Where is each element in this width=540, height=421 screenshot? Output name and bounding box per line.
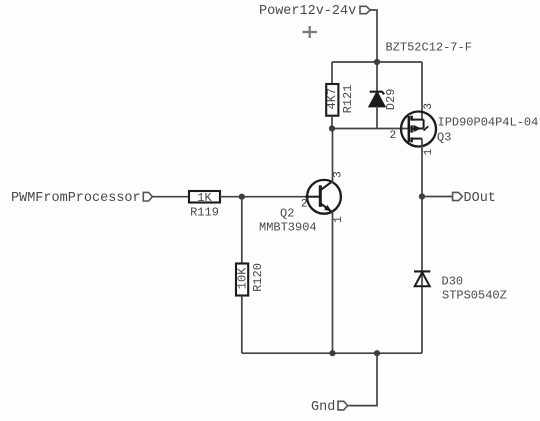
node gnd-rail junction	[374, 350, 380, 356]
diode D29 zener	[370, 92, 385, 107]
wire R120 bottom	[241, 296, 243, 354]
wire Q2 collector	[332, 129, 334, 184]
transistor Q3	[401, 112, 436, 147]
svg-text:R121: R121	[341, 85, 355, 114]
svg-text:10K: 10K	[236, 267, 250, 289]
svg-text:BZT52C12-7-F: BZT52C12-7-F	[386, 41, 472, 55]
svg-text:Power12v-24v: Power12v-24v	[259, 4, 356, 19]
wire Q3 source	[421, 62, 423, 120]
flag DOut	[453, 192, 463, 200]
node top rail junction	[374, 59, 380, 65]
flag PWMFromProcessor	[143, 192, 152, 201]
svg-text:4K7: 4K7	[325, 88, 339, 110]
wire gnd	[348, 353, 377, 405]
svg-text:D30: D30	[442, 274, 464, 288]
node emitter-rail junction	[329, 350, 335, 356]
svg-text:D29: D29	[384, 89, 398, 111]
wire bottom rail	[242, 352, 422, 354]
resistor R119	[189, 191, 220, 203]
wire Q3 drain down	[421, 139, 423, 354]
resistor R120	[236, 264, 248, 296]
svg-text:DOut: DOut	[464, 191, 496, 206]
flag Gnd	[338, 401, 348, 410]
flag Power12v-24v	[360, 6, 370, 13]
node base junction	[239, 194, 245, 200]
node DOut junction	[419, 193, 425, 199]
transistor Q2	[305, 180, 341, 214]
svg-text:Gnd: Gnd	[311, 400, 335, 415]
wire gate	[332, 128, 409, 130]
svg-text:IPD90P04P4L-04: IPD90P04P4L-04	[438, 115, 539, 129]
wire R121 top	[331, 62, 333, 85]
svg-text:1: 1	[423, 148, 435, 155]
svg-text:1: 1	[333, 216, 345, 223]
svg-text:PWMFromProcessor: PWMFromProcessor	[11, 191, 141, 206]
svg-text:Q3: Q3	[437, 131, 451, 145]
svg-text:R120: R120	[251, 263, 265, 292]
svg-text:2: 2	[390, 130, 397, 142]
wire Q2 emitter	[332, 212, 334, 354]
wire top rail	[332, 61, 422, 63]
svg-text:3: 3	[333, 171, 345, 178]
wire power drop	[370, 10, 377, 62]
svg-text:Q2: Q2	[280, 207, 294, 221]
node gate junction	[329, 125, 335, 131]
svg-text:3: 3	[423, 103, 435, 110]
plus mark	[303, 26, 317, 38]
svg-text:1K: 1K	[197, 191, 212, 205]
wire R121 bottom	[331, 116, 333, 129]
wire R120 top	[241, 197, 243, 264]
wire DOut	[422, 196, 453, 198]
wire D29 bottom	[376, 106, 378, 128]
wire input to R119	[152, 196, 189, 198]
resistor R121	[326, 84, 338, 116]
wire R119 to base	[220, 196, 307, 198]
svg-text:MMBT3904: MMBT3904	[259, 221, 317, 235]
svg-text:R119: R119	[190, 206, 219, 220]
diode D30	[414, 271, 430, 286]
svg-text:STPS0540Z: STPS0540Z	[442, 289, 507, 303]
wire D29 top	[376, 62, 378, 92]
svg-text:2: 2	[301, 199, 308, 211]
